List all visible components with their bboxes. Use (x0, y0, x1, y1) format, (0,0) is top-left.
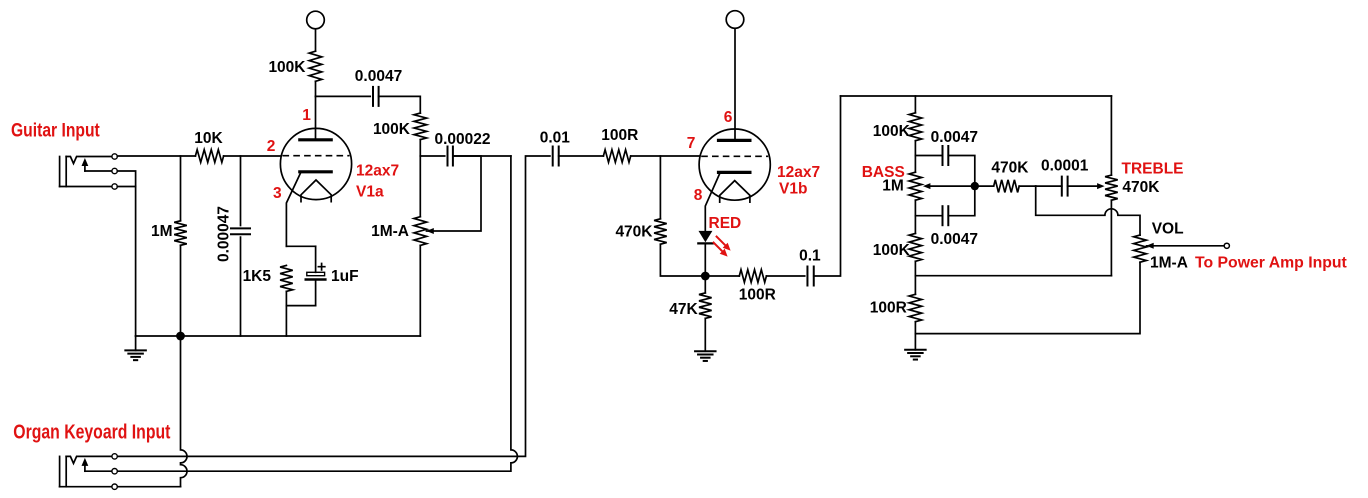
wire cathode bottom bar (286, 305, 315, 307)
wire rail down to 100K (914, 96, 916, 113)
svg-text:1uF: 1uF (331, 268, 359, 285)
svg-text:470K: 470K (615, 224, 653, 241)
wire dot to 470K (975, 185, 994, 187)
label 100R grid (601, 127, 638, 144)
tube V1b triode (699, 129, 770, 202)
output terminal (1224, 243, 1229, 248)
wire 0.01 to 100R (559, 155, 604, 157)
label VOL 1M-A (1150, 254, 1188, 271)
svg-text:1M: 1M (882, 178, 904, 195)
label 0.0047 coupling (355, 68, 402, 85)
ground tone stack (905, 350, 926, 360)
vol wiper arrow (1146, 243, 1154, 249)
wiper arrow 1M-A pot (426, 228, 434, 234)
wire treble bottom (1110, 200, 1112, 276)
wire 1uF stem top (315, 246, 317, 272)
wire grid node down to 0.00047 (240, 156, 242, 226)
label 470K series (991, 160, 1029, 177)
svg-text:Organ Keyoard Input: Organ Keyoard Input (13, 421, 170, 443)
resistor 100R out (739, 270, 766, 283)
wire 470K to node (660, 244, 700, 276)
wire 10K to tube grid (224, 155, 281, 157)
resistor 100K plate load V1a (309, 51, 322, 81)
label 0.0047 lower (931, 231, 978, 248)
label 100K upper (873, 123, 911, 140)
label RED (709, 215, 742, 232)
svg-text:1M: 1M (151, 223, 173, 240)
svg-text:0.0047: 0.0047 (931, 231, 978, 248)
resistor 470K grid leak (654, 219, 667, 244)
guitar input jack J1 (60, 154, 118, 189)
svg-text:6: 6 (724, 109, 733, 126)
label V1a (356, 183, 384, 200)
svg-text:100K: 100K (268, 59, 306, 76)
bass wiper arrow (923, 183, 931, 189)
svg-text:470K: 470K (1122, 179, 1160, 196)
bass wiper wire (930, 185, 975, 187)
resistor 100K grid-2 (414, 113, 427, 140)
svg-text:Guitar Input: Guitar Input (11, 119, 100, 141)
wire junction down to 1M (180, 156, 182, 221)
svg-text:0.00047: 0.00047 (216, 206, 233, 262)
svg-text:0.1: 0.1 (799, 248, 821, 265)
label Guitar Input (11, 119, 100, 141)
svg-text:100R: 100R (739, 287, 776, 304)
label pin 6 (724, 109, 733, 126)
capacitor 0.00047 (231, 228, 250, 234)
capacitor 0.0001 (1062, 177, 1068, 196)
svg-text:7: 7 (687, 135, 696, 152)
wire LED to node (704, 243, 706, 276)
svg-text:0.01: 0.01 (540, 130, 571, 147)
vol wiper wire (1147, 245, 1225, 247)
label BASS (862, 164, 905, 181)
wire 100K lower to node (914, 261, 916, 294)
svg-text:47K: 47K (669, 301, 698, 318)
wire 47K to ground (704, 318, 706, 351)
label 12ax7 V1b (777, 164, 820, 181)
treble wiper wire (1068, 185, 1098, 187)
wire 1uF stem bottom (315, 280, 317, 306)
label V1b (779, 181, 807, 198)
wire treble bottom to stack (915, 275, 1111, 277)
LED RED (698, 231, 712, 244)
label 47K (669, 301, 698, 318)
wire 100K to bass top (914, 141, 916, 173)
svg-text:VOL: VOL (1152, 220, 1184, 237)
wire ring to down-line (117, 171, 135, 187)
label 1M-A (371, 223, 409, 240)
potentiometer VOL (1134, 235, 1147, 262)
svg-text:V1b: V1b (779, 181, 807, 198)
label 0.1 (799, 248, 821, 265)
treble wiper arrow (1097, 183, 1105, 189)
capacitor 0.00022 (448, 147, 453, 166)
svg-text:100R: 100R (601, 127, 638, 144)
svg-text:100K: 100K (873, 123, 911, 140)
wire 100K to plate node (315, 81, 317, 96)
label VOL (1152, 220, 1184, 237)
svg-text:V1a: V1a (356, 183, 384, 200)
label 100R out (739, 287, 776, 304)
svg-text:2: 2 (267, 138, 276, 155)
wire rail-dot down to organ sleeve (181, 336, 188, 487)
wire plate node to cap (316, 95, 371, 97)
wire supply to 100K (315, 29, 317, 51)
resistor 47K (699, 293, 712, 319)
label 0.01 (540, 130, 571, 147)
wire ground rail (136, 335, 421, 337)
wire 1K5 to rail (285, 291, 287, 336)
junction dot rail (176, 332, 185, 341)
wire 100K to node (419, 140, 421, 156)
svg-text:100K: 100K (373, 121, 411, 138)
capacitor 0.0047 lower (943, 206, 949, 225)
wire node to 100R (705, 275, 739, 277)
label 0.00022 (434, 131, 490, 148)
svg-text:10K: 10K (194, 130, 223, 147)
wire 1M to rail (180, 245, 182, 336)
organ input jack J2 (60, 454, 118, 490)
svg-text:100K: 100K (873, 242, 911, 259)
wire 0.1 up to top rail (814, 96, 841, 276)
tube V1a triode (280, 128, 351, 201)
label TREBLE (1122, 161, 1184, 178)
pin 6 wire (plate) (734, 28, 736, 140)
label 470K grid leak (615, 224, 653, 241)
wire tip to 10K (117, 155, 195, 157)
label pin 3 (273, 185, 282, 202)
svg-text:8: 8 (694, 187, 703, 204)
label 1M (151, 223, 173, 240)
svg-text:To Power Amp Input: To Power Amp Input (1195, 254, 1348, 271)
wire bass to 100K lower (914, 200, 916, 233)
resistor 470K series (994, 180, 1020, 193)
svg-text:RED: RED (709, 215, 742, 232)
wire node to 0.00022 (420, 155, 444, 157)
wire node to 47K (704, 276, 706, 293)
wire VOL bottom (915, 262, 1140, 333)
label 100K lower (873, 242, 911, 259)
cathode lead V1a (286, 173, 300, 246)
ground left (125, 350, 146, 360)
wire cathode top bar (286, 245, 315, 247)
wire 0.00022 to wiper corner (427, 156, 482, 231)
wire rail to treble (1110, 96, 1112, 175)
wire 100R to ground (914, 322, 916, 350)
label 1K5 (243, 268, 272, 285)
supply terminal B+ (V1a) (307, 11, 325, 29)
junction dot cathode node (701, 272, 710, 281)
svg-text:TREBLE: TREBLE (1122, 161, 1184, 178)
label 100K plate (268, 59, 306, 76)
svg-text:0.0001: 0.0001 (1041, 158, 1089, 175)
wire cap to corner (379, 96, 421, 113)
wire jack ground down (135, 187, 137, 337)
svg-text:3: 3 (273, 185, 282, 202)
resistor 10K (195, 150, 223, 163)
junction dot bass wiper (971, 182, 979, 190)
wire sleeve to down-line (117, 186, 135, 188)
potentiometer BASS 1M (909, 172, 922, 200)
wire branch bottom (915, 215, 942, 217)
cathode lead V1b (705, 174, 719, 231)
svg-text:470K: 470K (991, 160, 1029, 177)
wire branch bottom right (948, 189, 975, 216)
label Organ Keyoard Input (13, 421, 170, 443)
label 100R shunt (870, 300, 907, 317)
svg-text:100R: 100R (870, 300, 907, 317)
resistor 100K lower (909, 233, 922, 261)
wire 100R to 0.1 (766, 275, 804, 277)
wire organ sleeve line (117, 486, 180, 488)
svg-text:1M-A: 1M-A (371, 223, 409, 240)
wire 470K to node (1019, 185, 1035, 187)
wire node to 0.0001 (1036, 185, 1062, 187)
wire pot to rail (419, 245, 421, 336)
ground left stem (135, 336, 137, 350)
wire top rail (841, 95, 1112, 97)
svg-text:1M-A: 1M-A (1150, 254, 1188, 271)
resistor 100R shunt (909, 294, 922, 321)
pin 1 wire (plate) (315, 96, 317, 139)
wire 0.00047 to rail (240, 237, 242, 336)
resistor 1M (174, 221, 187, 246)
label BASS 1M (882, 178, 904, 195)
label 1uF (331, 268, 359, 285)
svg-text:1: 1 (302, 107, 311, 124)
wire 100R to V1b grid (631, 155, 699, 157)
capacitor 0.0047 upper (943, 146, 949, 165)
svg-text:12ax7: 12ax7 (777, 164, 820, 181)
capacitor 1uF electrolytic (306, 264, 326, 280)
capacitor 0.0047 coupling (373, 87, 379, 106)
resistor 1K5 (280, 265, 293, 291)
svg-text:0.0047: 0.0047 (355, 68, 402, 85)
wire continue right of node (453, 155, 511, 157)
LED light arrows (714, 237, 731, 257)
label pin 8 (694, 187, 703, 204)
label pin 2 (267, 138, 276, 155)
resistor 100K upper (909, 113, 922, 141)
resistor 100R grid (603, 150, 630, 163)
label 0.0047 upper (931, 129, 978, 146)
label pin 7 (687, 135, 696, 152)
wire branch top (915, 155, 942, 157)
potentiometer 1M-A (414, 217, 427, 246)
supply terminal B+ (V1b) (726, 11, 744, 29)
svg-text:0.0047: 0.0047 (931, 129, 978, 146)
svg-text:1K5: 1K5 (243, 268, 272, 285)
wire branch top right (948, 156, 975, 184)
label TREBLE 470K (1122, 179, 1160, 196)
capacitor 0.1 (807, 267, 813, 286)
label 0.0001 (1041, 158, 1089, 175)
label 12ax7 V1a (356, 163, 399, 180)
svg-text:0.00022: 0.00022 (434, 131, 490, 148)
label To Power Amp Input (1195, 254, 1348, 271)
label 0.00047 (216, 206, 233, 262)
label 10K (194, 130, 223, 147)
wire node down to pot (419, 156, 421, 217)
wire 0.00022 node to organ ring (117, 156, 517, 471)
ground 47K (695, 351, 716, 361)
wire node to VOL top (1036, 186, 1140, 235)
label pin 1 (302, 107, 311, 124)
label 100K grid-2 (373, 121, 411, 138)
svg-text:12ax7: 12ax7 (356, 163, 399, 180)
potentiometer TREBLE 470K (1105, 175, 1118, 200)
wire junction down to 470K (659, 156, 661, 219)
capacitor 0.01 (553, 147, 559, 166)
wire organ tip up to 0.01 (117, 156, 550, 456)
